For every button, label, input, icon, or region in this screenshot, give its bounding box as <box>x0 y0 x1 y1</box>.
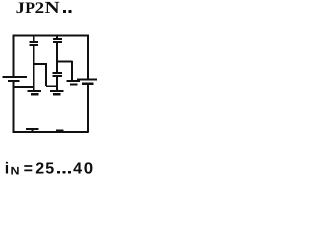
capacitor C3 bottom plate <box>53 75 62 77</box>
wire: left vertical (upper) <box>13 35 15 77</box>
wire: left vertical (lower) <box>13 82 15 133</box>
capacitor C1 bottom plate <box>30 44 39 46</box>
svg-text:=: = <box>24 161 33 178</box>
wire: horizontal C to B at y86 <box>46 85 58 87</box>
svg-text:J: J <box>16 0 25 17</box>
electrode E1 plate (long) <box>67 80 81 82</box>
electrode K2 moving plate (long) <box>50 90 64 92</box>
svg-text:5: 5 <box>45 161 54 178</box>
cell GB2 long plate <box>77 79 97 81</box>
wire: vertical B upper stub <box>56 35 58 38</box>
wire: branch B to D at y61 <box>57 61 73 63</box>
wire: vertical B lower <box>56 77 58 91</box>
svg-text:N: N <box>45 0 61 17</box>
electrode K3 fixed plate above bottom bus <box>26 128 39 130</box>
wire: top bus <box>13 35 89 37</box>
wire: vertical C <box>45 63 47 86</box>
wire: vertical D <box>71 61 73 81</box>
capacitor C2 bottom plate <box>53 41 62 43</box>
wire: right vertical (upper) <box>87 35 89 80</box>
wire: right vertical (lower) <box>87 84 89 133</box>
svg-text:4: 4 <box>73 161 82 178</box>
wire: vertical A upper stub <box>33 35 35 41</box>
electrode K3 stub to bottom bus <box>32 130 34 133</box>
wire: branch A to C at y64 <box>33 63 47 65</box>
svg-text:N: N <box>11 165 20 177</box>
cell GB1 long plate <box>3 76 28 78</box>
electrode K1 tip plate (short) <box>31 93 39 95</box>
capacitor C1 top plate <box>30 41 39 43</box>
svg-text:i: i <box>5 161 9 178</box>
wire: vertical B middle <box>56 43 58 73</box>
cell GB1 short plate <box>8 80 20 82</box>
wire: vertical A lower <box>33 46 35 91</box>
caption iN=25...40 <box>5 161 93 178</box>
title label JP2N.. <box>16 0 72 17</box>
capacitor C2 top plate <box>53 38 62 40</box>
electrode K4 fixed plate on bottom bus <box>56 130 64 132</box>
electrode E1 tip plate (short) <box>70 83 78 85</box>
wire: horizontal from left edge to A at y87 <box>13 86 34 88</box>
svg-text:2: 2 <box>35 0 45 17</box>
svg-text:0: 0 <box>84 161 93 178</box>
cell GB2 short plate <box>82 83 94 85</box>
capacitor C3 top plate <box>53 72 62 74</box>
svg-text:2: 2 <box>35 161 44 178</box>
electrode K2 tip plate (short) <box>53 93 61 95</box>
wire: bottom bus <box>13 131 89 133</box>
electrode K1 moving plate (long) <box>28 90 42 92</box>
